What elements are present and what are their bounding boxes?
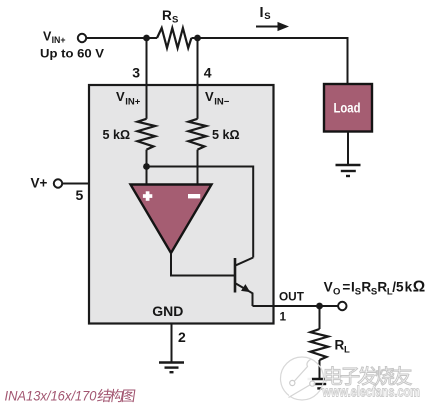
- svg-text:R: R: [361, 279, 371, 294]
- wire OUT: [253, 305, 339, 307]
- svg-text:V+: V+: [31, 175, 48, 190]
- svg-text:L: L: [344, 344, 350, 355]
- resistor RS: [157, 28, 191, 48]
- resistor R2 5k right: [188, 119, 206, 150]
- svg-text:4: 4: [204, 65, 212, 81]
- transistor Q1 emitter arrow: [241, 284, 250, 292]
- svg-text:Up to 60 V: Up to 60 V: [40, 46, 105, 60]
- svg-text:R: R: [377, 279, 387, 294]
- svg-text:S: S: [355, 286, 361, 297]
- ground load: [336, 165, 361, 176]
- terminal VO: [338, 302, 346, 310]
- junction node pin4 top: [194, 35, 201, 42]
- wire pin 2: [171, 324, 173, 363]
- terminal VIN+: [78, 34, 86, 42]
- transistor Q1 emitter: [236, 284, 253, 307]
- label VIN+ internal: [116, 89, 141, 107]
- svg-text:S: S: [371, 286, 377, 297]
- wire load to ground: [347, 132, 349, 166]
- wire RL to ground: [319, 360, 321, 379]
- svg-text:www.elecfans.com: www.elecfans.com: [322, 383, 420, 400]
- svg-text:Ω: Ω: [413, 278, 425, 295]
- svg-text:V: V: [116, 89, 125, 104]
- svg-text:V: V: [205, 89, 214, 104]
- svg-text:OUT: OUT: [279, 289, 305, 303]
- svg-text:GND: GND: [152, 303, 183, 319]
- op-amp minus sign: [188, 194, 200, 198]
- junction node VO: [316, 303, 323, 310]
- svg-text:/5: /5: [392, 279, 404, 294]
- wire VO to RL: [319, 306, 321, 329]
- label IS: [260, 5, 271, 22]
- arrow IS: [256, 22, 289, 31]
- svg-text:IN+: IN+: [52, 35, 66, 45]
- svg-text:5 kΩ: 5 kΩ: [103, 128, 131, 142]
- op-amp U1A: [131, 185, 212, 254]
- svg-text:Load: Load: [334, 100, 361, 116]
- resistor R1 5k left: [137, 119, 155, 150]
- svg-text:S: S: [264, 11, 270, 22]
- svg-text:V: V: [324, 279, 333, 294]
- label RL: [335, 338, 351, 356]
- label VIN- internal: [205, 89, 230, 107]
- wire pin 3: [146, 38, 148, 119]
- wire pin 4: [197, 38, 199, 119]
- terminal V+: [54, 179, 62, 187]
- svg-text:IN+: IN+: [125, 96, 141, 107]
- label RS: [162, 8, 178, 26]
- svg-text:2: 2: [178, 329, 186, 345]
- label VIN+: [43, 30, 66, 46]
- junction node pin3 top: [143, 35, 150, 42]
- wire RS to load corner: [191, 38, 347, 84]
- svg-text:I: I: [260, 5, 264, 21]
- svg-text:5 kΩ: 5 kΩ: [212, 128, 240, 142]
- wire op-amp output to Q1 base: [171, 253, 235, 276]
- wire R1 to node A: [146, 150, 148, 185]
- IC body U1 INA13x/16x/170: [89, 85, 274, 324]
- wire V+ to pin 5: [62, 183, 89, 185]
- svg-text:INA13x/16x/170: INA13x/16x/170: [5, 387, 97, 403]
- svg-text:IN−: IN−: [214, 96, 230, 107]
- svg-text:R: R: [162, 8, 172, 23]
- label VO formula: [324, 278, 426, 297]
- ground RL: [308, 379, 332, 388]
- resistor RL: [310, 329, 328, 360]
- wire VIN+ to RS: [86, 37, 157, 39]
- load LD1: [324, 84, 372, 132]
- ground IC: [159, 363, 184, 373]
- svg-text:O: O: [333, 286, 340, 297]
- caption CJK: [97, 389, 112, 402]
- watermark logo: [281, 357, 324, 400]
- svg-text:S: S: [172, 15, 178, 26]
- svg-text:=: =: [342, 279, 350, 294]
- node A junction dot: [143, 163, 150, 170]
- transistor Q1 base bar: [234, 258, 237, 293]
- wire R2 to op-amp minus input: [197, 150, 199, 185]
- svg-text:3: 3: [132, 65, 140, 81]
- transistor Q1 collector: [236, 258, 253, 266]
- svg-text:5: 5: [76, 187, 84, 203]
- wire feedback node A to Q1 collector: [147, 167, 254, 258]
- svg-text:R: R: [335, 338, 345, 353]
- op-amp plus sign: [143, 191, 152, 201]
- svg-text:1: 1: [280, 310, 287, 324]
- svg-text:k: k: [405, 279, 413, 294]
- watermark text: [325, 366, 342, 384]
